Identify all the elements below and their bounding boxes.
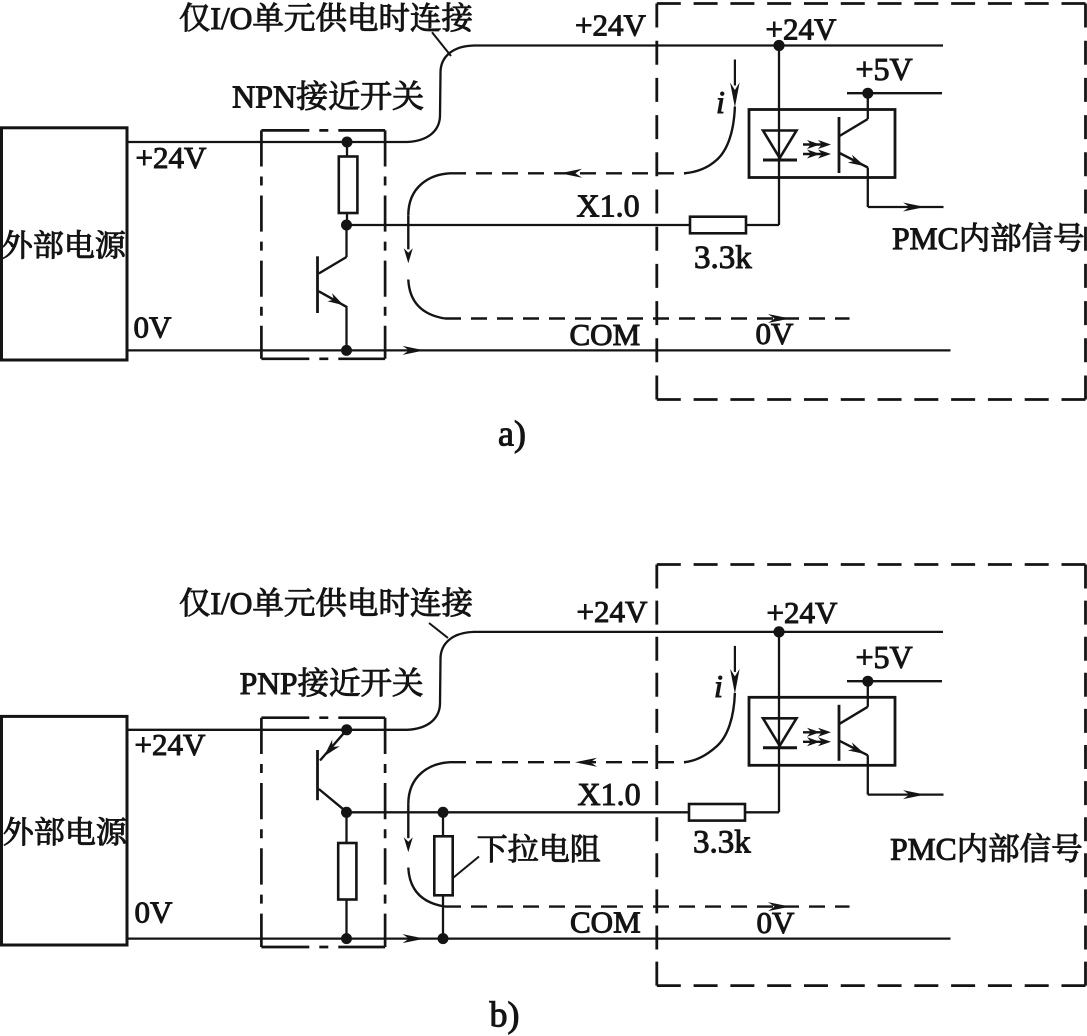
- svg-text:i: i: [716, 84, 725, 120]
- svg-text:i: i: [714, 668, 723, 704]
- svg-text:+24V: +24V: [767, 595, 838, 630]
- svg-text:COM: COM: [570, 317, 641, 352]
- svg-text:0V: 0V: [757, 905, 796, 940]
- svg-text:+5V: +5V: [856, 639, 913, 675]
- svg-text:3.3k: 3.3k: [693, 825, 751, 861]
- svg-text:+5V: +5V: [856, 51, 913, 87]
- svg-text:+24V: +24V: [766, 12, 837, 47]
- svg-text:a): a): [498, 414, 526, 454]
- svg-text:X1.0: X1.0: [577, 188, 640, 224]
- svg-text:X1.0: X1.0: [578, 776, 641, 812]
- svg-text:0V: 0V: [756, 316, 795, 351]
- svg-text:+24V: +24V: [577, 594, 648, 629]
- svg-text:0V: 0V: [135, 895, 174, 930]
- svg-text:+24V: +24V: [575, 8, 646, 43]
- svg-text:+24V: +24V: [136, 140, 207, 175]
- svg-text:0V: 0V: [134, 310, 173, 345]
- svg-text:+24V: +24V: [135, 727, 206, 762]
- svg-text:b): b): [490, 995, 520, 1035]
- svg-text:COM: COM: [570, 905, 641, 940]
- svg-text:3.3k: 3.3k: [694, 240, 752, 276]
